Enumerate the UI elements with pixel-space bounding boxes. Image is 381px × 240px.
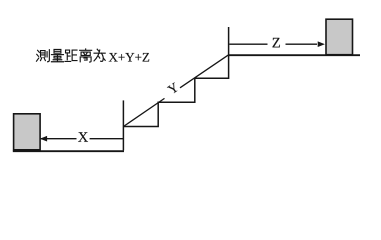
label X — [78, 132, 88, 141]
staircase steps — [123, 27, 228, 127]
label Z — [272, 38, 279, 47]
left ground line — [13, 150, 124, 152]
hypotenuse Y line (diagonal) — [123, 55, 228, 127]
量 — [51, 49, 63, 61]
arrow Z head — [318, 42, 324, 47]
arrow Z line (right-pointing) — [229, 43, 317, 45]
stair bottom vertical reference line — [122, 100, 124, 150]
为 — [94, 49, 105, 61]
arrow X head — [41, 136, 47, 141]
title latin part X+Y+Z — [109, 53, 118, 62]
right box (gray block on platform) — [326, 19, 353, 55]
top platform / right ground line — [229, 54, 360, 56]
测 — [36, 50, 49, 62]
离 — [80, 49, 92, 62]
title text: 测量距离为X+Y+Z — [36, 49, 105, 62]
arrow X line (left-pointing) — [41, 138, 124, 140]
距 — [65, 50, 77, 61]
label Y (rotated along diagonal) — [167, 82, 179, 94]
left box (gray block on left ground) — [14, 114, 40, 150]
